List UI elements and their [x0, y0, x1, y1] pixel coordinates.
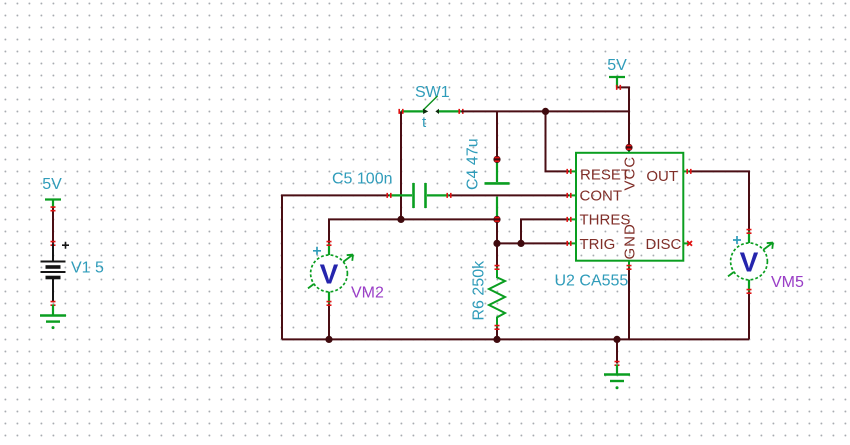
junction + pin mark C4 top: [493, 156, 500, 163]
ground (left): [40, 305, 66, 322]
pin stub VCC: [628, 147, 630, 152]
wire TRIG row: [497, 242, 569, 244]
junction TRIG row x=521: [517, 240, 524, 247]
pin mark VM5 bottom: [747, 290, 752, 294]
pin mark ground tap: [615, 362, 620, 366]
wire CONT row left segment: [282, 195, 389, 339]
plus sign VM2: [313, 247, 321, 255]
pin mark SW1 left: [399, 109, 403, 114]
svg-text:CONT: CONT: [580, 187, 623, 204]
svg-text:GND: GND: [622, 223, 639, 259]
wire CONT row right segment: [449, 194, 569, 196]
wire SW1 left down to THRES row: [400, 111, 402, 219]
pin mark V1 minus terminal: [51, 302, 56, 306]
wire OUT to VM5: [689, 171, 749, 231]
junction + pin mark C4 bottom: [493, 216, 500, 223]
junction VM2 on bus: [325, 336, 332, 343]
svg-text:V: V: [320, 258, 339, 289]
wire top row SW1 right to VCC column: [461, 110, 629, 112]
switch SW1: [401, 96, 461, 114]
pin stub TRIG: [569, 242, 577, 244]
pin mark RESET: [567, 169, 571, 174]
meter arrow VM5: [728, 243, 773, 277]
meter stems VM5: [748, 231, 750, 291]
pin mark R6 bottom: [495, 326, 500, 330]
junction VCC column: [625, 144, 632, 151]
wire ground tap: [616, 339, 618, 363]
pin mark R6 top: [495, 266, 500, 270]
pin mark CONT: [567, 193, 571, 198]
svg-text:R6 250k: R6 250k: [471, 260, 488, 321]
pin mark DISC (unconnected): [687, 241, 692, 246]
power jumper 5V (left): [45, 200, 61, 208]
pin mark SW1 right: [459, 109, 463, 114]
pin mark VM5 top: [747, 230, 752, 234]
wire corner to THRES pin: [521, 219, 569, 243]
pin mark 5V jumper: [51, 207, 56, 211]
meter arrow VM2: [308, 255, 353, 289]
pin mark C5 right: [447, 193, 451, 198]
pin mark C5 left: [387, 193, 391, 198]
pin mark TRIG: [567, 241, 571, 246]
wire 5V right to VCC column: [617, 87, 629, 147]
wire RESET branch: [546, 111, 570, 171]
pin mark OUT: [687, 169, 691, 174]
wire C4 bottom to R6 top column: [496, 219, 498, 267]
pin stub OUT: [683, 170, 689, 172]
wire chip GND down to bus: [628, 267, 630, 339]
plus sign V1: [62, 242, 69, 249]
svg-text:5V: 5V: [607, 57, 627, 74]
junction ground tap on bus: [613, 336, 620, 343]
meter body VM2: [311, 255, 348, 292]
pin mark VM2 bottom: [327, 302, 332, 306]
pin stub DISC: [683, 242, 689, 244]
svg-text:C4 47u: C4 47u: [465, 138, 482, 190]
pin mark GND: [627, 266, 632, 270]
plus sign VM5: [733, 236, 741, 244]
wire 5V to V1: [52, 207, 54, 243]
resistor R6: [489, 267, 505, 327]
svg-text:5V: 5V: [42, 176, 62, 193]
junction SW1/THRES row: [397, 216, 404, 223]
wire C4 top column: [496, 111, 498, 159]
meter stems VM2: [328, 243, 330, 303]
power jumper 5V (right): [609, 77, 625, 87]
ground (middle): [604, 365, 630, 382]
svg-text:VM2: VM2: [351, 285, 384, 302]
meter body VM5: [731, 243, 768, 280]
capacitor C4: [485, 159, 510, 219]
svg-text:VCC: VCC: [622, 156, 639, 191]
pin mark THRES: [567, 217, 571, 222]
svg-text:U2 CA555: U2 CA555: [555, 273, 629, 290]
pin mark 5V right: [617, 85, 621, 90]
junction RESET branch: [542, 108, 549, 115]
wire bottom ground bus: [282, 338, 749, 340]
pin stub GND: [628, 261, 630, 268]
svg-text:OUT: OUT: [646, 168, 678, 185]
junction R6 top / TRIG row: [493, 240, 500, 247]
pin stub THRES: [569, 218, 577, 220]
pin mark VM2 top: [327, 242, 332, 246]
battery V1: [41, 243, 66, 302]
wire VM5 bottom to bus: [748, 291, 750, 339]
wire VM2 bottom to bus: [328, 303, 330, 339]
pin mark V1 plus terminal: [51, 242, 56, 246]
junction R6 on bus: [493, 336, 500, 343]
svg-text:V: V: [740, 246, 759, 277]
op-amp/chip body U2: [576, 153, 683, 261]
wire THRES row (VM2 to C4 junction): [329, 219, 497, 243]
svg-text:TRIG: TRIG: [580, 236, 616, 253]
svg-text:V1 5: V1 5: [71, 260, 104, 277]
wire R6 bottom to bus: [496, 327, 498, 339]
svg-text:C5 100n: C5 100n: [332, 171, 393, 188]
capacitor C5: [389, 183, 449, 208]
pin stub RESET: [569, 170, 577, 172]
svg-text:DISC: DISC: [646, 236, 682, 253]
svg-text:VM5: VM5: [771, 274, 804, 291]
svg-text:SW1: SW1: [415, 84, 450, 101]
pin stub CONT: [569, 194, 577, 196]
